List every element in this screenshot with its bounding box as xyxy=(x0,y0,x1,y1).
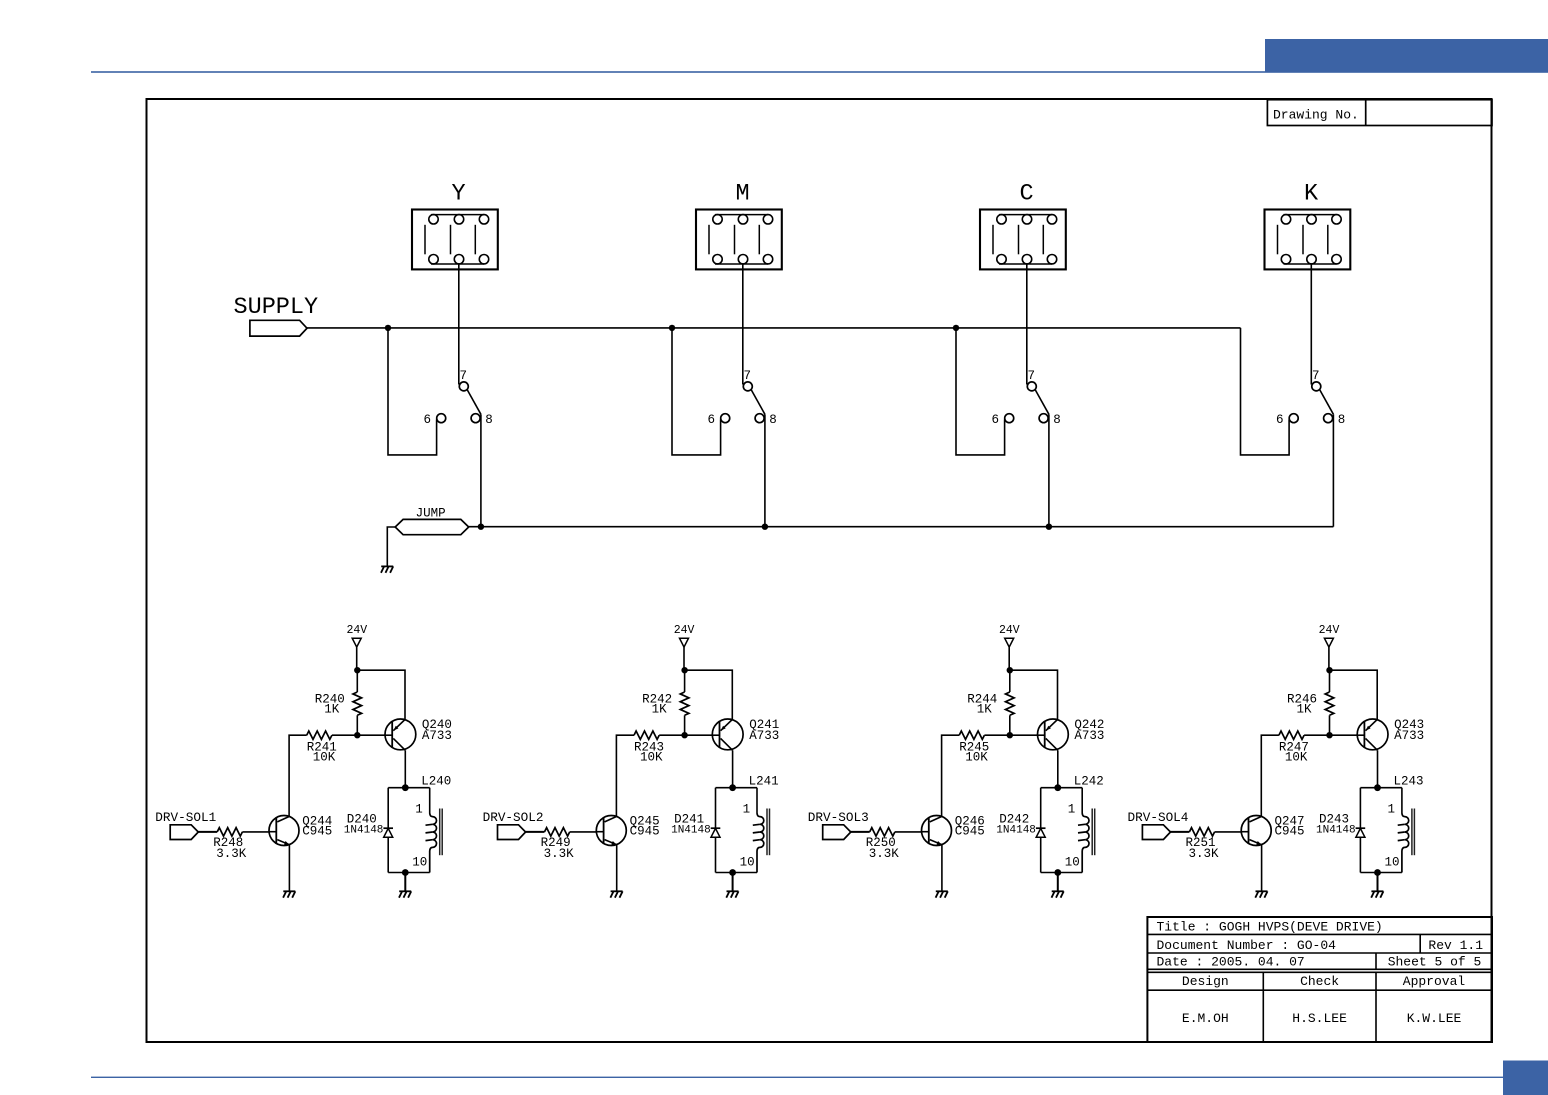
ground (JUMP) xyxy=(381,566,393,572)
footer blue block xyxy=(1503,1061,1548,1095)
node L240 pin 1 junction xyxy=(402,784,409,791)
switch C pin 7 xyxy=(1027,369,1036,391)
wire supply to switch Y pin 6 xyxy=(388,328,437,455)
svg-text:A733: A733 xyxy=(1394,729,1424,743)
wire Q242 collector to L242 xyxy=(1057,750,1059,787)
svg-text:10K: 10K xyxy=(640,751,663,765)
svg-text:DRV-SOL3: DRV-SOL3 xyxy=(808,810,869,825)
wire 24V junction to emitter xyxy=(1330,670,1378,719)
svg-text:24V: 24V xyxy=(346,624,367,637)
svg-text:A733: A733 xyxy=(749,729,779,743)
resistor R246 1K xyxy=(1287,670,1334,735)
node L243 pin 1 junction xyxy=(1374,784,1381,791)
solenoid L242 xyxy=(1041,774,1104,872)
connector M (relay block) xyxy=(696,181,782,270)
wire L241 to ground xyxy=(732,873,734,892)
wire 24V junction to emitter xyxy=(685,670,733,719)
ground (L243) xyxy=(1371,891,1383,897)
top horizontal rule xyxy=(91,71,1548,73)
svg-text:1K: 1K xyxy=(1296,702,1312,716)
power symbol 24V (L242 driver) xyxy=(999,624,1020,670)
svg-text:1: 1 xyxy=(1068,802,1076,816)
wire 24V junction to emitter xyxy=(1010,670,1058,719)
wire Q240 collector to L240 xyxy=(404,750,406,787)
svg-text:6: 6 xyxy=(423,413,431,427)
svg-text:1: 1 xyxy=(743,802,751,816)
resistor R240 1K xyxy=(315,670,362,735)
svg-text:8: 8 xyxy=(1338,413,1346,427)
switch M pin 6 xyxy=(707,413,729,427)
svg-text:DRV-SOL1: DRV-SOL1 xyxy=(155,810,216,825)
transistor Q242 A733 (PNP) xyxy=(1038,718,1105,750)
solenoid L240 xyxy=(388,774,451,872)
net tag SUPPLY xyxy=(234,294,319,336)
transistor Q244 C945 (NPN) xyxy=(269,815,332,846)
switch K pin 8 xyxy=(1324,413,1346,427)
resistor R242 1K xyxy=(642,670,689,735)
svg-text:Sheet 5 of 5: Sheet 5 of 5 xyxy=(1388,955,1482,970)
wire R247 to Q247 collector xyxy=(1261,735,1279,816)
svg-text:C945: C945 xyxy=(630,824,660,838)
switch Y pin 7 xyxy=(459,369,468,391)
transistor Q241 A733 (PNP) xyxy=(712,718,779,750)
input tag DRV-SOL4 xyxy=(1128,810,1189,840)
wire connector M to switch pin 7 xyxy=(742,264,744,385)
svg-text:10: 10 xyxy=(740,856,755,870)
svg-text:A733: A733 xyxy=(1074,729,1104,743)
connector K (relay block) xyxy=(1265,181,1351,270)
solenoid L241 xyxy=(716,774,779,872)
svg-text:C: C xyxy=(1019,181,1033,208)
svg-text:8: 8 xyxy=(1053,413,1061,427)
ground (L241) xyxy=(726,891,738,897)
wire R245 to Q246 collector xyxy=(942,735,960,816)
node base junction xyxy=(1326,732,1332,738)
svg-text:Rev 1.1: Rev 1.1 xyxy=(1428,938,1483,953)
node 24V junction xyxy=(1326,667,1332,673)
solenoid L243 xyxy=(1360,774,1423,872)
wire L242 to ground xyxy=(1057,873,1059,892)
node L241 pin 10 junction xyxy=(729,869,736,876)
svg-text:H.S.LEE: H.S.LEE xyxy=(1292,1011,1347,1026)
node L243 pin 10 junction xyxy=(1374,869,1381,876)
connector Y (relay block) xyxy=(412,181,498,270)
svg-text:10: 10 xyxy=(1385,856,1400,870)
node supply junction M xyxy=(669,325,675,331)
ground (Q245) xyxy=(610,891,622,897)
input tag DRV-SOL1 xyxy=(155,810,216,840)
transistor Q240 A733 (PNP) xyxy=(385,718,452,750)
node 24V junction xyxy=(1007,667,1013,673)
svg-text:L242: L242 xyxy=(1074,774,1104,788)
svg-text:L240: L240 xyxy=(421,774,451,788)
power symbol 24V (L240 driver) xyxy=(346,624,367,670)
wire supply to switch M pin 6 xyxy=(672,328,721,455)
resistor R244 1K xyxy=(967,670,1014,735)
switch Y pin 8 xyxy=(471,413,493,427)
ground (Q244) xyxy=(283,891,295,897)
node JUMP junction C xyxy=(1046,524,1052,530)
wire supply to switch C pin 6 xyxy=(956,328,1005,455)
resistor R251 3.3K xyxy=(1171,828,1242,861)
svg-text:10: 10 xyxy=(412,856,427,870)
footer horizontal rule xyxy=(91,1077,1503,1078)
node 24V junction xyxy=(354,667,360,673)
switch C pin 6 xyxy=(991,413,1013,427)
wire supply to switch K pin 6 xyxy=(1241,328,1290,455)
svg-text:3.3K: 3.3K xyxy=(1189,847,1220,861)
diode D242 1N4148 xyxy=(996,788,1045,873)
node L242 pin 10 junction xyxy=(1054,869,1061,876)
svg-text:1: 1 xyxy=(1388,802,1396,816)
wire connector K to switch pin 7 xyxy=(1310,264,1312,385)
svg-text:24V: 24V xyxy=(1319,624,1340,637)
svg-text:10: 10 xyxy=(1065,856,1080,870)
power symbol 24V (L241 driver) xyxy=(674,624,695,670)
svg-text:SUPPLY: SUPPLY xyxy=(234,294,319,321)
input tag DRV-SOL2 xyxy=(483,810,544,840)
svg-text:A733: A733 xyxy=(422,729,452,743)
resistor R245 10K xyxy=(959,731,1037,765)
switch K blade 7-8 xyxy=(1320,390,1334,414)
svg-text:L241: L241 xyxy=(749,774,779,788)
switch K pin 6 xyxy=(1276,413,1298,427)
sheet border frame xyxy=(147,99,1492,1042)
wire switch K pin 8 to JUMP bus xyxy=(1332,414,1334,526)
node 24V junction xyxy=(681,667,687,673)
svg-text:Document Number : GO-04: Document Number : GO-04 xyxy=(1157,938,1337,953)
drawing number box xyxy=(1267,100,1492,126)
wire switch M pin 8 to JUMP bus xyxy=(764,414,766,526)
switch C blade 7-8 xyxy=(1035,390,1049,414)
wire switch C pin 8 to JUMP bus xyxy=(1048,414,1050,526)
node base junction xyxy=(681,732,687,738)
svg-text:K.W.LEE: K.W.LEE xyxy=(1407,1011,1462,1026)
svg-text:6: 6 xyxy=(1276,413,1284,427)
svg-text:C945: C945 xyxy=(955,824,985,838)
node L241 pin 1 junction xyxy=(729,784,736,791)
wire switch Y pin 8 to JUMP bus xyxy=(480,414,482,526)
svg-text:Drawing No.: Drawing No. xyxy=(1273,108,1359,123)
wire SUPPLY bus xyxy=(307,327,1241,329)
svg-text:24V: 24V xyxy=(999,624,1020,637)
svg-text:1K: 1K xyxy=(977,702,993,716)
svg-text:Date : 2005. 04. 07: Date : 2005. 04. 07 xyxy=(1157,955,1305,970)
svg-text:6: 6 xyxy=(707,413,715,427)
svg-text:3.3K: 3.3K xyxy=(216,847,247,861)
svg-text:JUMP: JUMP xyxy=(416,507,446,521)
svg-text:L243: L243 xyxy=(1394,774,1424,788)
net tag JUMP xyxy=(395,507,469,535)
resistor R250 3.3K xyxy=(851,828,922,861)
svg-text:Design: Design xyxy=(1182,974,1229,989)
transistor Q246 C945 (NPN) xyxy=(922,815,985,846)
svg-text:8: 8 xyxy=(485,413,493,427)
resistor R241 10K xyxy=(307,731,385,765)
wire R241 to Q244 collector xyxy=(289,735,307,816)
svg-text:10K: 10K xyxy=(1285,751,1308,765)
diode D240 1N4148 xyxy=(344,788,393,873)
svg-text:10K: 10K xyxy=(313,751,336,765)
node JUMP junction M xyxy=(762,524,768,530)
svg-text:1K: 1K xyxy=(652,702,668,716)
wire 24V junction to emitter xyxy=(357,670,405,719)
svg-text:Approval: Approval xyxy=(1403,974,1466,989)
switch Y blade 7-8 xyxy=(467,390,481,414)
wire Q243 collector to L243 xyxy=(1377,750,1379,787)
connector C (relay block) xyxy=(980,181,1066,270)
svg-text:3.3K: 3.3K xyxy=(544,847,575,861)
svg-text:10K: 10K xyxy=(965,751,988,765)
switch C pin 8 xyxy=(1039,413,1061,427)
node base junction xyxy=(1007,732,1013,738)
node L242 pin 1 junction xyxy=(1054,784,1061,791)
svg-text:1: 1 xyxy=(415,802,423,816)
switch M pin 8 xyxy=(755,413,777,427)
wire connector C to switch pin 7 xyxy=(1026,264,1028,385)
transistor Q245 C945 (NPN) xyxy=(596,815,659,846)
svg-text:C945: C945 xyxy=(1275,824,1305,838)
ground (L242) xyxy=(1052,891,1064,897)
svg-text:DRV-SOL4: DRV-SOL4 xyxy=(1128,810,1189,825)
wire JUMP tag to ground xyxy=(387,527,395,566)
svg-text:M: M xyxy=(735,181,749,208)
wire Q245 emitter to ground xyxy=(616,845,618,892)
resistor R248 3.3K xyxy=(198,828,269,861)
wire Q244 emitter to ground xyxy=(288,845,290,892)
ground (Q247) xyxy=(1255,891,1267,897)
diode D241 1N4148 xyxy=(671,788,720,873)
resistor R243 10K xyxy=(634,731,712,765)
wire R243 to Q245 collector xyxy=(616,735,634,816)
svg-text:8: 8 xyxy=(769,413,777,427)
svg-text:K: K xyxy=(1304,181,1319,208)
svg-text:Check: Check xyxy=(1300,974,1339,989)
title block xyxy=(1147,917,1492,1042)
node supply junction Y xyxy=(385,325,391,331)
svg-text:1K: 1K xyxy=(324,702,340,716)
wire Q241 collector to L241 xyxy=(732,750,734,787)
svg-text:1N4148: 1N4148 xyxy=(344,825,384,837)
diode D243 1N4148 xyxy=(1316,788,1365,873)
wire JUMP bus xyxy=(469,526,1334,528)
input tag DRV-SOL3 xyxy=(808,810,869,840)
switch Y pin 6 xyxy=(423,413,445,427)
svg-text:C945: C945 xyxy=(302,824,332,838)
power symbol 24V (L243 driver) xyxy=(1319,624,1340,670)
wire Q247 emitter to ground xyxy=(1261,845,1263,892)
header blue bar xyxy=(1265,39,1548,72)
switch M blade 7-8 xyxy=(751,390,765,414)
wire connector Y to switch pin 7 xyxy=(458,264,460,385)
transistor Q243 A733 (PNP) xyxy=(1357,718,1424,750)
node JUMP junction Y xyxy=(478,524,484,530)
svg-text:Title : GOGH HVPS(DEVE DRIVE): Title : GOGH HVPS(DEVE DRIVE) xyxy=(1157,920,1383,935)
ground (L240) xyxy=(399,891,411,897)
svg-text:Y: Y xyxy=(451,181,465,208)
resistor R249 3.3K xyxy=(526,828,597,861)
transistor Q247 C945 (NPN) xyxy=(1241,815,1304,846)
switch M pin 7 xyxy=(743,369,752,391)
wire Q246 emitter to ground xyxy=(941,845,943,892)
svg-text:1N4148: 1N4148 xyxy=(996,825,1036,837)
wire L240 to ground xyxy=(404,873,406,892)
svg-text:E.M.OH: E.M.OH xyxy=(1182,1011,1229,1026)
resistor R247 10K xyxy=(1279,731,1357,765)
wire L243 to ground xyxy=(1377,873,1379,892)
svg-text:1N4148: 1N4148 xyxy=(1316,825,1356,837)
svg-text:24V: 24V xyxy=(674,624,695,637)
svg-text:6: 6 xyxy=(991,413,999,427)
svg-text:3.3K: 3.3K xyxy=(869,847,900,861)
switch K pin 7 xyxy=(1312,369,1321,391)
ground (Q246) xyxy=(936,891,948,897)
node supply junction C xyxy=(953,325,959,331)
node L240 pin 10 junction xyxy=(402,869,409,876)
node base junction xyxy=(354,732,360,738)
svg-text:1N4148: 1N4148 xyxy=(671,825,711,837)
svg-text:DRV-SOL2: DRV-SOL2 xyxy=(483,810,544,825)
